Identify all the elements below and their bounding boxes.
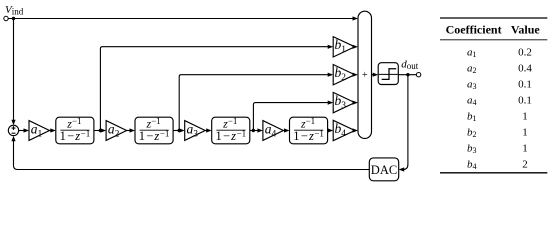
amplifier a3 <box>185 121 206 141</box>
wire int1 to a2 with tap node <box>94 130 101 132</box>
arrowhead b3 into summer <box>353 101 359 105</box>
quantizer U1 <box>378 63 398 85</box>
wire b2 to summer <box>353 74 355 76</box>
summing junction S1 <box>8 125 18 135</box>
wire quantizer to dout terminal <box>398 74 416 76</box>
integrator block H4 <box>290 117 328 144</box>
svg-text:0.1: 0.1 <box>518 78 532 90</box>
arrowhead into b3 <box>328 101 334 105</box>
label fraction H1 <box>60 116 91 143</box>
wire b4 to summer <box>353 130 355 132</box>
node junction dout <box>406 73 409 76</box>
svg-text:1: 1 <box>522 126 528 138</box>
terminal input circle Vind <box>4 16 8 20</box>
wire summer to quantizer <box>372 74 374 76</box>
svg-text:0.2: 0.2 <box>518 46 532 58</box>
arrowhead into a4 <box>257 128 263 132</box>
terminal output circle dout <box>416 73 420 77</box>
arrowhead left into DAC <box>399 167 405 171</box>
node junction after int1 <box>99 129 102 132</box>
DAC block U2 <box>369 158 398 181</box>
wire int4 to b4 <box>327 130 330 132</box>
plus sign in summing junction <box>12 126 16 133</box>
wire feedback dout down to DAC <box>403 75 408 170</box>
amplifier b1 <box>333 37 355 57</box>
wire b3 to summer <box>353 102 355 104</box>
arrowhead into b2 <box>328 73 334 77</box>
svg-text:1: 1 <box>522 110 528 122</box>
arrowhead b2 into summer <box>353 73 359 77</box>
amplifier b2 <box>333 65 355 85</box>
arrowhead into b1 <box>328 45 334 49</box>
node junction after int2 <box>178 129 181 132</box>
arrowhead into a3 <box>179 128 185 132</box>
amplifier a4 <box>263 121 284 141</box>
svg-text:2: 2 <box>522 158 528 170</box>
arrowhead down into sum circle <box>11 120 15 126</box>
label fraction H3 <box>216 116 247 143</box>
summer pill S2 <box>358 11 372 138</box>
svg-text:1: 1 <box>522 142 528 154</box>
wire a4 to int4 <box>283 130 284 132</box>
arrowhead into quantizer <box>373 73 379 77</box>
svg-text:0.1: 0.1 <box>518 94 532 106</box>
arrowhead into int2 <box>130 128 136 132</box>
table bottom rule <box>440 172 547 174</box>
integrator block H2 <box>135 117 173 144</box>
integrator block H3 <box>212 117 250 144</box>
arrowhead into int1 <box>50 128 56 132</box>
label fraction H4 <box>293 116 324 143</box>
quantizer symbol step <box>382 69 397 80</box>
quantizer symbol axis <box>379 73 398 75</box>
svg-text:Coefficient: Coefficient <box>446 23 502 37</box>
arrowhead into int4 <box>284 128 290 132</box>
amplifier b4 <box>333 120 355 140</box>
wire tap2 up to b2 <box>179 75 328 131</box>
amplifier b3 <box>333 92 355 112</box>
arrowhead into int3 <box>206 128 212 132</box>
wire int2 to a3 <box>173 130 180 132</box>
svg-text:Vind: Vind <box>5 4 24 17</box>
wire sum circle to a1 <box>19 130 24 132</box>
arrowhead b4 into summer <box>353 128 359 132</box>
wire a2 to int2 <box>127 130 130 132</box>
wire tap1 up to b1 <box>100 47 328 131</box>
amplifier a2 <box>106 121 127 141</box>
integrator block H1 <box>56 117 94 144</box>
svg-text:dout: dout <box>401 58 419 71</box>
wire a3 to int3 <box>205 130 207 132</box>
svg-text:0.4: 0.4 <box>518 62 532 74</box>
svg-text:DAC: DAC <box>371 163 397 177</box>
amplifier a1 <box>29 121 50 141</box>
minus sign in summing junction <box>12 132 16 134</box>
node junction after int3 <box>252 129 255 132</box>
wire Vind down to sum circle <box>13 19 15 121</box>
arrowhead into a2 <box>101 128 107 132</box>
wire b1 to summer <box>353 46 355 48</box>
wire feedback DAC to sum circle <box>14 141 370 170</box>
arrowhead up into sum circle <box>11 136 15 142</box>
node junction Vind <box>12 17 15 20</box>
wire top from Vind to summer <box>8 18 353 20</box>
arrowhead into b4 <box>328 128 334 132</box>
label fraction H2 <box>139 116 170 143</box>
wire int3 to a4 <box>250 130 258 132</box>
arrowhead into a1 <box>24 128 30 132</box>
wire tap3 up to b3 <box>253 103 328 131</box>
arrowhead into summer top left <box>353 16 359 20</box>
table top rule <box>440 17 547 19</box>
wire a1 to int1 <box>50 130 52 132</box>
table mid rule <box>440 39 547 41</box>
svg-text:+: + <box>362 70 368 81</box>
svg-text:Value: Value <box>511 23 541 37</box>
arrowhead b1 into summer <box>353 45 359 49</box>
